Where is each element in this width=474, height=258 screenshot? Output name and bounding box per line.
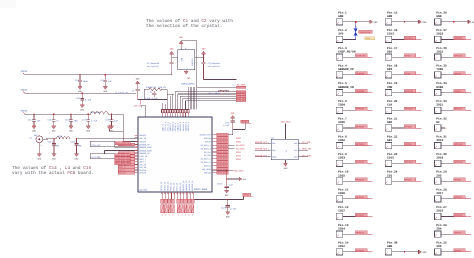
svg-text:0: 0: [185, 214, 186, 217]
svg-text:SPICS0: SPICS0: [405, 90, 414, 93]
svg-text:C14 k: C14 k: [48, 140, 54, 143]
node Pin.19 CMD: [385, 81, 421, 96]
svg-text:10uF: 10uF: [83, 80, 89, 83]
IC U1 right pin names: [199, 134, 211, 175]
node Pin.11 IO26: [336, 187, 372, 202]
svg-text:Pin.34: Pin.34: [436, 81, 447, 85]
svg-text:Pin.33: Pin.33: [436, 99, 447, 103]
svg-text:SPID2: SPID2: [405, 143, 412, 146]
label VDDIO bottom: [243, 193, 254, 196]
svg-text:vary with the actual PCB board: vary with the actual PCB board.: [12, 170, 94, 176]
svg-text:IO18: IO18: [436, 157, 443, 160]
wire right extended pins: [228, 137, 245, 161]
svg-text:C17 k: C17 k: [82, 118, 88, 121]
capacitor C1: [147, 48, 178, 75]
svg-text:GPIO14: GPIO14: [356, 232, 365, 235]
node VDDIO rail3 label: [21, 109, 28, 114]
capacitor C15: [217, 182, 234, 197]
IC right pin wires and labels: [212, 133, 228, 174]
ground above crystal: [179, 36, 184, 50]
svg-text:0: 0: [189, 214, 190, 217]
svg-text:GPIO13: GPIO13: [405, 37, 414, 40]
svg-text:GPIO12: GPIO12: [356, 249, 365, 252]
svg-text:SENS_INT: SENS_INT: [302, 148, 312, 151]
ground below crystal: [184, 70, 191, 80]
svg-text:the selection of the crystal.: the selection of the crystal.: [146, 23, 222, 29]
svg-text:IO25: IO25: [338, 174, 345, 177]
capacitor C6: [132, 78, 140, 100]
wire bottom rail to VDDIO: [191, 199, 244, 201]
IC U1 bottom pin names: [160, 180, 194, 191]
svg-text:GND: GND: [294, 156, 297, 159]
capacitor C14: [48, 138, 60, 160]
svg-text:IO23: IO23: [436, 33, 443, 36]
svg-text:C15 k: C15 k: [217, 182, 223, 185]
wire rail3: [24, 113, 90, 115]
svg-text:Pin.27: Pin.27: [436, 205, 447, 209]
node Pin.18 SD3: [385, 64, 421, 79]
svg-text:PA_+_VBAT: PA_+_VBAT: [209, 92, 221, 95]
node Pin.16 IO13: [385, 28, 421, 42]
svg-text:Pin.23: Pin.23: [387, 152, 398, 156]
node Pin.25 IO0: [435, 241, 471, 256]
svg-text:TP: TP: [285, 150, 288, 152]
svg-text:NC: NC: [436, 121, 440, 124]
wire loop right to bus: [167, 93, 174, 95]
node Pin.34 RXD0: [435, 81, 471, 96]
node Pin.38 GND: [385, 241, 427, 256]
svg-text:Pin.1: Pin.1: [338, 10, 347, 14]
wire rail3 drop to IC: [122, 114, 124, 141]
svg-text:32K_XP: 32K_XP: [119, 172, 127, 175]
inductor PA_VBAT on bus: [209, 90, 230, 95]
capacitor C17 on rail3: [82, 114, 98, 133]
resistor array RN1: [161, 199, 175, 216]
svg-text:Pin.15: Pin.15: [387, 10, 398, 14]
note about C14 L4 C15 PCB: [12, 165, 94, 176]
resistor array RN2: [177, 199, 194, 216]
U2 right wires and labels: [298, 141, 312, 158]
svg-text:0.1uF/6.3V: 0.1uF/6.3V: [116, 92, 129, 95]
svg-text:GND: GND: [338, 15, 343, 18]
svg-text:Pin.22: Pin.22: [387, 134, 398, 138]
svg-text:GPIO35: GPIO35: [356, 125, 365, 128]
svg-text:GND: GND: [436, 15, 441, 18]
svg-text:SD0: SD0: [387, 121, 392, 124]
node Pin.29 IO5: [435, 170, 471, 185]
wire VDD_SDIO pin: [212, 169, 233, 171]
svg-text:C13 k: C13 k: [65, 118, 71, 121]
svg-text:GPIO_MTDI_SEN: GPIO_MTDI_SEN: [115, 162, 130, 165]
svg-text:C20 k 1nF: C20 k 1nF: [91, 144, 101, 147]
svg-text:SD3: SD3: [387, 68, 392, 71]
node VDDIO rail1 label: [21, 70, 28, 75]
svg-text:C12 k: C12 k: [47, 118, 53, 121]
svg-text:IO0: IO0: [436, 245, 441, 248]
svg-text:TXD0: TXD0: [436, 68, 443, 71]
svg-text:GPIO15: GPIO15: [405, 161, 414, 164]
node Pin.23 IO15: [385, 152, 421, 167]
svg-text:Pin.32: Pin.32: [436, 117, 447, 121]
svg-text:SENSOR_SCK: SENSOR_SCK: [255, 141, 268, 144]
svg-text:GPIO_MTDI_SE: GPIO_MTDI_SE: [116, 142, 130, 145]
capacitor C22: [221, 199, 237, 219]
svg-text:Pin.36: Pin.36: [436, 46, 447, 50]
svg-text:GPIO33: GPIO33: [356, 161, 365, 164]
svg-text:4.7uF: 4.7uF: [230, 208, 237, 211]
svg-text:Pin.19: Pin.19: [387, 81, 398, 85]
node Pin.8 IO32: [336, 134, 372, 149]
IC U1 ESP32-D0WD box: [138, 117, 212, 192]
svg-text:GPIO23_1: GPIO23_1: [187, 121, 190, 131]
svg-text:SD1: SD1: [387, 139, 392, 142]
note about C1 C2 crystal: [146, 18, 233, 29]
svg-text:GPIO: GPIO: [236, 141, 242, 144]
wire bus drops extra: [162, 103, 164, 110]
node Pin.33 IO21: [435, 99, 471, 114]
svg-text:Pin.17: Pin.17: [387, 46, 398, 50]
svg-text:VDD: VDD: [294, 142, 297, 145]
svg-text:Pin.9: Pin.9: [338, 152, 347, 156]
capacitor C8 on rail1: [75, 74, 88, 93]
svg-text:0: 0: [162, 214, 163, 217]
node Pin.14 IO12: [336, 241, 372, 256]
svg-text:GPIO2: GPIO2: [405, 179, 412, 182]
svg-text:Pin.14: Pin.14: [338, 241, 349, 245]
svg-text:VDIN: VDIN: [366, 37, 370, 40]
svg-text:Pin.31: Pin.31: [436, 134, 447, 138]
node Pin.32 NC: [435, 117, 448, 132]
svg-text:GND: GND: [374, 21, 379, 24]
svg-text:ESP32-D0WD: ESP32-D0WD: [194, 188, 208, 191]
svg-text:VDDIO: VDDIO: [21, 70, 28, 73]
node Pin.10 IO25: [336, 170, 372, 185]
svg-text:GPIO32: GPIO32: [356, 143, 365, 146]
wire rail3 to VDD3P3 pin: [123, 141, 134, 143]
svg-text:SPIQ2: SPIQ2: [405, 125, 412, 128]
capacitor C12 on rail3: [47, 114, 59, 133]
svg-text:GPIO21: GPIO21: [454, 108, 463, 111]
label 32K_XP: [134, 100, 142, 108]
svg-text:0: 0: [172, 214, 173, 217]
svg-text:IO34: IO34: [338, 104, 345, 107]
wire antenna line: [48, 138, 56, 140]
IC left pin wires and labels: [118, 135, 138, 174]
node Pin.13 IO14: [336, 223, 372, 238]
svg-text:VDD_SDIO: VDD_SDIO: [234, 170, 245, 173]
svg-text:IO33: IO33: [338, 157, 345, 160]
svg-text:C16 k: C16 k: [76, 97, 82, 100]
svg-text:GPIO5: GPIO5: [454, 179, 461, 182]
wire bus line2: [178, 93, 237, 95]
svg-text:GPIO16: GPIO16: [204, 171, 212, 174]
svg-text:SENSOR_INT: SENSOR_INT: [255, 154, 268, 157]
svg-text:26MHz(40MHz): 26MHz(40MHz): [181, 83, 195, 86]
svg-text:L4 CM: L4 CM: [57, 135, 63, 138]
svg-text:RXD0: RXD0: [436, 86, 443, 89]
svg-text:0: 0: [178, 214, 179, 217]
node Pin.30 IO18: [435, 152, 471, 167]
IC U1 left pin names: [139, 134, 152, 175]
svg-text:0: 0: [181, 214, 182, 217]
svg-text:XOUT X1: XOUT X1: [191, 58, 194, 66]
svg-text:SENSEDIODE: SENSEDIODE: [359, 31, 371, 34]
svg-text:on crystal): on crystal): [147, 65, 159, 68]
wire connector left L: [141, 104, 145, 106]
ground left of IC top: [107, 124, 123, 131]
svg-text:Pin.18: Pin.18: [387, 64, 398, 68]
svg-text:IO13: IO13: [387, 33, 394, 36]
svg-text:Pin.8: Pin.8: [338, 134, 347, 138]
svg-text:CLK: CLK: [387, 104, 392, 107]
ground branch right: [226, 177, 247, 181]
svg-text:IO35: IO35: [338, 121, 345, 124]
svg-text:GND: GND: [387, 245, 392, 248]
resistor R10 with capacitor C7 parallel loop: [144, 86, 167, 100]
wire bus line0: [204, 79, 237, 81]
svg-text:IO12: IO12: [338, 245, 345, 248]
svg-text:Pin.4: Pin.4: [338, 64, 347, 68]
svg-text:GPIO26: GPIO26: [139, 172, 147, 175]
svg-text:GND: GND: [387, 15, 392, 18]
svg-text:CMD: CMD: [387, 86, 392, 89]
node Pin.1 GND: [336, 10, 378, 25]
svg-text:Pin.29: Pin.29: [436, 170, 447, 174]
svg-text:WAKE: WAKE: [272, 156, 276, 159]
node Pin.26 IO4: [435, 223, 471, 238]
node Pin.5 SENSOR_VN: [336, 81, 372, 96]
svg-text:IO32: IO32: [338, 139, 345, 142]
screenshot artifact top-left: [0, 0, 16, 8]
wire C6 to RC loop: [138, 99, 145, 101]
capacitor C16 on rail2: [76, 92, 92, 111]
svg-text:SENSOR_VN: SENSOR_VN: [338, 86, 354, 89]
svg-text:GPIO22: GPIO22: [454, 55, 463, 58]
wire antenna to LNA pin: [77, 138, 135, 140]
label VDDIO right of C3: [241, 120, 252, 123]
svg-text:Pin.26: Pin.26: [436, 223, 447, 227]
node Pin.20 CLK: [385, 99, 421, 114]
svg-text:GPIO23: GPIO23: [454, 37, 463, 40]
node Pin.21 SD0: [385, 117, 421, 132]
svg-text:0.1uF: 0.1uF: [85, 99, 92, 102]
svg-text:GND_SENS: GND_SENS: [302, 154, 312, 157]
node Pin.7 IO35: [336, 117, 372, 132]
svg-text:Pin.3: Pin.3: [338, 46, 347, 50]
wire down from VDD_SDIO: [226, 170, 228, 186]
svg-text:C21 k TBD: C21 k TBD: [91, 156, 101, 159]
wire left long 150.5: [105, 150, 135, 152]
svg-text:Pin.2: Pin.2: [338, 28, 347, 32]
svg-text:3V3_PER: 3V3_PER: [302, 141, 311, 144]
node Pin.2 3V3: [336, 28, 355, 42]
svg-text:GPIO_MTD: GPIO_MTD: [237, 99, 246, 102]
node Pin.28 IO17: [435, 187, 471, 202]
svg-text:GND: GND: [422, 251, 427, 254]
node Pin.24 IO2: [385, 170, 421, 185]
wire rail1: [24, 74, 171, 76]
svg-text:GPIO26: GPIO26: [356, 196, 365, 199]
node Pin.4 SENSOR_VP: [336, 64, 372, 79]
svg-text:C15 k: C15 k: [70, 140, 76, 143]
svg-text:Pin.5: Pin.5: [338, 81, 347, 85]
svg-text:Pin.24: Pin.24: [387, 170, 398, 174]
svg-text:3V3: 3V3: [338, 33, 343, 36]
svg-text:IO14: IO14: [338, 227, 345, 230]
svg-text:CHIP_PD/SH: CHIP_PD/SH: [338, 49, 356, 53]
svg-text:4.7uF: 4.7uF: [91, 120, 98, 123]
svg-text:IO2: IO2: [387, 174, 392, 177]
svg-text:Pin.35: Pin.35: [436, 64, 447, 68]
svg-text:VDDIO: VDDIO: [243, 194, 250, 197]
svg-text:VDD_SDIO: VDD_SDIO: [281, 121, 292, 124]
node Pin.31 IO19: [435, 134, 471, 149]
svg-text:IO27: IO27: [338, 210, 345, 213]
crystal X1 box: [178, 47, 195, 70]
labels under IC bottom pins: [161, 192, 195, 195]
svg-text:IO22: IO22: [436, 50, 443, 53]
capacitor C3 top right of IC: [223, 112, 235, 129]
svg-text:GPIO4: GPIO4: [454, 232, 461, 235]
svg-text:IO15: IO15: [387, 157, 394, 160]
label stack bus right: [236, 86, 245, 102]
node Pin.35 TXD0: [435, 64, 471, 79]
wire U2 power: [285, 123, 287, 139]
capacitor C21 network: [90, 154, 130, 166]
IC U2 box: [271, 137, 298, 160]
svg-text:GPIO_MTD: GPIO_MTD: [237, 86, 246, 89]
svg-text:C19 k: C19 k: [105, 118, 111, 121]
node Pin.15 GND: [385, 10, 427, 25]
capacitor C20 network: [90, 141, 132, 147]
svg-text:32K_XP: 32K_XP: [134, 104, 142, 107]
svg-text:IO26: IO26: [338, 192, 345, 195]
svg-text:Pin.6: Pin.6: [338, 99, 347, 103]
svg-text:on crystal): on crystal): [208, 65, 220, 68]
svg-text:0: 0: [192, 214, 193, 217]
svg-text:Pin.37: Pin.37: [436, 28, 447, 32]
diode D1 on pin2: [354, 22, 375, 41]
svg-text:GPIO25: GPIO25: [356, 179, 365, 182]
node VDDIO rail2 label: [21, 89, 28, 94]
capacitor C9 on rail1: [100, 74, 112, 93]
node Pin.17 SD2: [385, 46, 421, 61]
svg-text:GPIO16: GPIO16: [454, 214, 463, 217]
svg-text:Pin.12: Pin.12: [338, 205, 349, 209]
ground U2: [283, 160, 288, 171]
connector J1 row of pads: [162, 110, 190, 118]
IC bottom pin wires: [162, 192, 193, 199]
svg-text:IO17: IO17: [436, 192, 443, 195]
svg-text:0: 0: [169, 214, 170, 217]
svg-text:0.1uF: 0.1uF: [223, 124, 230, 127]
node Pin.39 GND: [435, 10, 474, 25]
wire bus line4: [183, 97, 236, 99]
svg-text:GPIO17: GPIO17: [454, 196, 463, 199]
wire bus line5: [186, 100, 237, 102]
svg-text:L2 2.0uH: L2 2.0uH: [91, 111, 101, 114]
svg-text:GPIO18: GPIO18: [454, 161, 463, 164]
svg-text:Pin.38: Pin.38: [387, 241, 398, 245]
node Pin.37 IO23: [435, 28, 471, 42]
svg-text:Pin.16: Pin.16: [387, 28, 398, 32]
U2 left wires and labels: [255, 141, 271, 158]
svg-text:Pin.7: Pin.7: [338, 117, 347, 121]
svg-text:Pin.30: Pin.30: [436, 152, 447, 156]
node Pin.3 CHIP_PD/SH: [336, 46, 372, 61]
wire bus top corner: [197, 86, 236, 88]
capacitor C13 on rail3: [65, 114, 78, 133]
svg-text:0: 0: [165, 214, 166, 217]
wire loop1 to pin: [115, 146, 135, 148]
wire C3 to VDDIO: [233, 129, 245, 131]
capacitor C11 on rail3: [28, 114, 41, 133]
svg-text:GPIO_MTDI: GPIO_MTDI: [217, 171, 227, 174]
node Pin.9 IO33: [336, 152, 372, 167]
svg-text:CHIP_PD: CHIP_PD: [356, 55, 366, 58]
wire rail2: [24, 92, 136, 94]
node Pin.22 SD1: [385, 134, 421, 149]
svg-text:GPIO: GPIO: [236, 158, 242, 161]
node Pin.12 IO27: [336, 205, 372, 220]
svg-text:SENSOR_SDA: SENSOR_SDA: [255, 148, 268, 151]
inductor L2 on rail3: [91, 111, 109, 114]
svg-text:VDDIO: VDDIO: [21, 109, 28, 112]
svg-text:SENSOR_VP: SENSOR_VP: [338, 68, 354, 71]
svg-text:GND EPAD: GND EPAD: [139, 188, 147, 191]
svg-text:R 499K/1%: R 499K/1%: [146, 86, 157, 89]
svg-text:VDDIO: VDDIO: [241, 120, 248, 123]
svg-text:GPIO34: GPIO34: [356, 108, 365, 111]
svg-text:Pin.20: Pin.20: [387, 99, 398, 103]
antenna connector J2: [29, 134, 48, 160]
wire bus line1: [175, 91, 236, 93]
svg-text:SENSOR_: SENSOR_: [356, 72, 366, 75]
svg-text:2: 2: [41, 144, 42, 147]
node Pin.27 IO16: [435, 205, 471, 220]
svg-text:SPIQ: SPIQ: [405, 72, 411, 75]
svg-text:32K_XN: 32K_XN: [159, 86, 167, 89]
svg-text:GPIO19: GPIO19: [454, 143, 463, 146]
svg-text:IO19: IO19: [436, 139, 443, 142]
svg-text:U0TXD: U0TXD: [454, 72, 461, 75]
svg-text:IO21: IO21: [436, 104, 443, 107]
svg-text:SD2: SD2: [387, 50, 392, 53]
wire bus line3: [180, 95, 236, 97]
svg-text:Pin.13: Pin.13: [338, 223, 349, 227]
capacitor C2: [195, 48, 221, 80]
svg-text:Pin.11: Pin.11: [338, 187, 349, 191]
svg-text:IO4: IO4: [436, 227, 441, 230]
wire crystal top to right drop: [181, 40, 197, 42]
node Pin.6 IO34: [336, 99, 372, 114]
svg-text:GPIO0: GPIO0: [454, 249, 461, 252]
node Pin.36 IO22: [435, 46, 471, 61]
svg-text:IO16: IO16: [436, 210, 443, 213]
svg-text:SENSOR_: SENSOR_: [356, 90, 366, 93]
svg-text:Pin.28: Pin.28: [436, 187, 447, 191]
svg-text:GND: GND: [422, 21, 427, 24]
svg-text:Pin.25: Pin.25: [436, 241, 447, 245]
svg-text:SPID: SPID: [405, 55, 411, 58]
svg-text:GPIO27: GPIO27: [356, 214, 365, 217]
svg-text:IO5: IO5: [436, 174, 441, 177]
svg-text:U0RXD: U0RXD: [454, 90, 461, 93]
svg-text:VDDIO: VDDIO: [21, 89, 28, 92]
svg-text:1.6pF-2.2nF: 1.6pF-2.2nF: [145, 97, 159, 100]
capacitor C19 on rail3: [105, 114, 118, 133]
inductor L4: [56, 135, 70, 139]
